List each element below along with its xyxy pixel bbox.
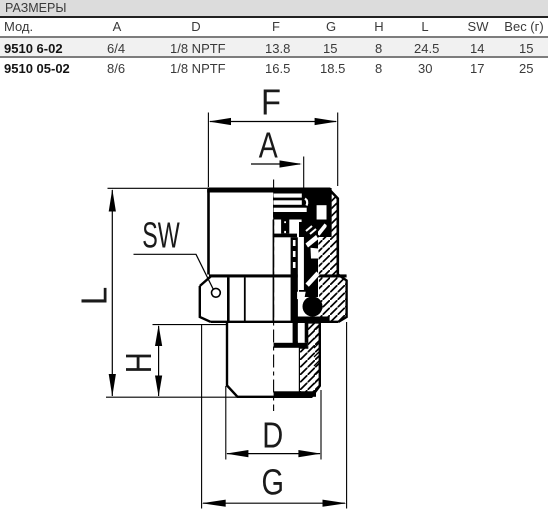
spring bar upper bbox=[281, 220, 289, 234]
claw white wedge bbox=[311, 248, 319, 259]
claw white slash 2 bbox=[306, 272, 320, 287]
white slot mid bbox=[298, 237, 304, 290]
dim D arrow left bbox=[226, 450, 249, 457]
collet guide band bbox=[291, 237, 298, 321]
dim H arrow top bbox=[155, 325, 162, 346]
hex outline bbox=[200, 275, 347, 322]
dim L extension top bbox=[108, 187, 208, 189]
dim F extension right bbox=[337, 113, 339, 187]
claw black region bbox=[299, 222, 318, 297]
centerline bbox=[273, 180, 275, 412]
svg-text:G: G bbox=[261, 462, 284, 503]
dim G arrow right bbox=[323, 500, 347, 507]
spring wiggle white detail bbox=[305, 199, 307, 206]
svg-text:D: D bbox=[262, 415, 283, 456]
dim A line bbox=[251, 163, 300, 165]
hex face line 2 bbox=[244, 278, 246, 322]
bore step line bbox=[274, 343, 307, 348]
dim F arrow right bbox=[315, 118, 338, 125]
dim L arrow bottom bbox=[109, 374, 116, 397]
spring dashes bbox=[293, 240, 296, 272]
collet black mass top bbox=[273, 188, 331, 237]
dimension letters bbox=[74, 82, 284, 503]
table title bar bbox=[0, 0, 548, 16]
cap top edge thick bbox=[207, 188, 330, 193]
spring dot b bbox=[284, 231, 286, 233]
spring dot a bbox=[284, 221, 286, 223]
svg-text:H: H bbox=[118, 352, 159, 373]
white slot 1 bbox=[274, 194, 302, 198]
dim D extension right bbox=[320, 390, 322, 460]
cap wall lining bbox=[327, 190, 332, 232]
SW leader bbox=[134, 254, 214, 289]
svg-text:F: F bbox=[261, 82, 281, 123]
dim G extension right bbox=[346, 322, 348, 509]
row 2 bbox=[4, 61, 70, 76]
hex seat dark band bbox=[297, 317, 330, 323]
outer wall hatched bbox=[318, 193, 346, 321]
svg-text:L: L bbox=[74, 287, 115, 306]
cartridge bottom wall bbox=[293, 322, 298, 344]
claw top white ticks bbox=[306, 226, 316, 234]
dim H arrow bottom bbox=[155, 376, 162, 397]
table title bbox=[5, 1, 66, 16]
dim H extension top bbox=[153, 324, 227, 326]
claw white slash 1 bbox=[306, 235, 319, 248]
header row bbox=[4, 19, 33, 34]
dim H line bbox=[158, 326, 160, 396]
thread serrations bbox=[314, 324, 320, 384]
white slot right bbox=[317, 205, 327, 219]
dim G arrow left bbox=[202, 500, 226, 507]
dim L extension bottom bbox=[106, 396, 237, 398]
collet step band bbox=[273, 234, 297, 238]
dim A extension bbox=[303, 157, 305, 189]
body cap outline bbox=[209, 190, 338, 275]
row 1 bbox=[0, 38, 548, 57]
hex face line 1 bbox=[227, 278, 230, 322]
dim F extension left bbox=[207, 113, 209, 188]
slot wall bbox=[305, 322, 308, 343]
dim L line bbox=[111, 190, 113, 396]
thread wall hatched bbox=[299, 323, 319, 396]
dim D extension left bbox=[225, 386, 227, 460]
thread outline bbox=[227, 322, 320, 397]
claw upper white slash bbox=[317, 224, 328, 236]
hex top edge thick bbox=[209, 274, 347, 277]
svg-text:SW: SW bbox=[142, 214, 180, 255]
dim G extension left bbox=[201, 324, 203, 509]
thick rule under title bbox=[0, 16, 548, 18]
dim D line bbox=[227, 453, 320, 455]
bore end face line bbox=[274, 391, 316, 397]
dim F line bbox=[210, 121, 336, 123]
dim D arrow right bbox=[298, 450, 321, 457]
claw upper right block bbox=[316, 220, 332, 238]
O-ring bbox=[303, 297, 323, 317]
dim A arrow bbox=[280, 160, 303, 167]
SW circle bbox=[212, 288, 221, 297]
svg-text:A: A bbox=[259, 124, 278, 165]
sleeve wall at center bbox=[273, 220, 275, 323]
white slot 2 bbox=[274, 200, 302, 205]
dim L arrow top bbox=[109, 189, 116, 212]
white slot thread bbox=[298, 324, 305, 341]
dim G line bbox=[203, 502, 345, 504]
white pocket bbox=[297, 292, 306, 301]
dim F arrow left bbox=[209, 118, 232, 125]
white slot 3 bbox=[274, 208, 307, 212]
